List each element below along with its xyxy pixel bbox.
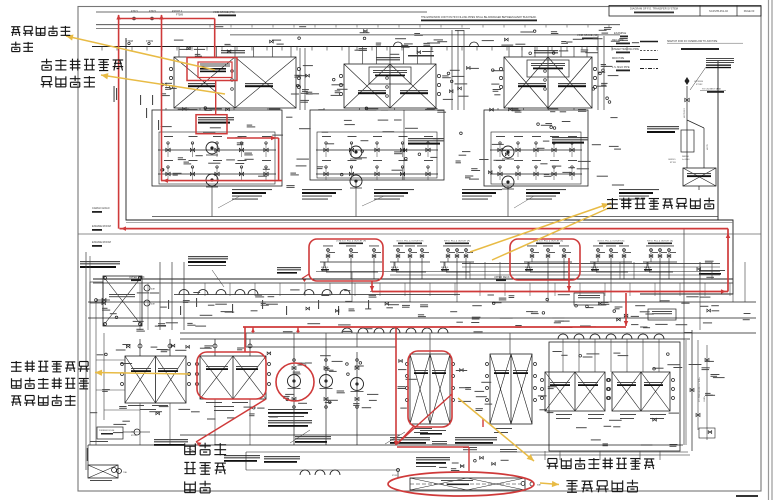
red drop x626: [625, 293, 627, 326]
bottom pipe run y452: [246, 451, 688, 453]
storage tank pair T1 (cargo hold module 1): [174, 57, 296, 108]
transfer pump room box module 2: [310, 110, 444, 180]
red arrow to pump label: [196, 399, 266, 442]
svg-text:FT010: FT010: [131, 435, 138, 437]
filling header line 3: [316, 271, 720, 273]
sample flask M.G.O. FILL & OUTLET (P): [392, 262, 397, 271]
left engine room risers: [159, 262, 161, 330]
svg-text:TO OIL MIST TANK: TO OIL MIST TANK: [702, 88, 722, 91]
tank top vents: [139, 339, 141, 356]
tank T1 labels: [188, 83, 216, 84]
valve cluster module 1: [166, 148, 170, 152]
bottom pipe run y435: [180, 434, 400, 436]
note TO FO DRAIN TK right: [699, 270, 725, 271]
sample flask LS M.G.O. FILL & OUTLET (P): [322, 262, 327, 271]
motor valve 40E lower: [144, 300, 150, 306]
pump spec text below: [268, 409, 312, 410]
red drop into tank1: [214, 19, 216, 58]
left engine room clutter: [116, 350, 126, 351]
pump bay inner box module 1: [159, 132, 275, 184]
MDO tank bottom labels: [128, 405, 144, 406]
label fuel oil overflow tank bottom (Chinese): [566, 480, 577, 482]
svg-text:SAMPLE: SAMPLE: [644, 266, 652, 269]
svg-text:HFO PIPE: HFO PIPE: [612, 39, 624, 42]
red stub arrow x298: [297, 328, 299, 334]
air pipe branch vertical: [703, 128, 705, 168]
svg-text:SC4S7B-451-02: SC4S7B-451-02: [709, 9, 728, 13]
filling header line 1: [462, 263, 720, 265]
red box No.2 LS MGO storage tanks: [408, 351, 452, 427]
red box tank1 inner: [198, 62, 232, 78]
air head symbol: [685, 77, 690, 81]
storage tank pair T3 (cargo hold module 3): [504, 57, 592, 108]
inter-module riser bundle A: [299, 48, 301, 110]
MDO tank fittings: [121, 363, 124, 366]
svg-text:ST. PRESSURE 0.7 MPa: ST. PRESSURE 0.7 MPa: [699, 377, 701, 402]
tank T1 risers to manifold: [178, 47, 180, 58]
module 3 below-tank labels: [547, 108, 558, 109]
small junction box 2: [648, 309, 676, 320]
sketch tank stub: [698, 186, 700, 190]
svg-text:H.F.O. FILL & OUTLET (P): H.F.O. FILL & OUTLET (P): [444, 241, 470, 243]
left engine room stubs: [96, 359, 125, 361]
red ellipse overflow tank: [388, 472, 534, 496]
svg-text:LS M.G.O. FILL & OUTLET (S): LS M.G.O. FILL & OUTLET (S): [533, 241, 563, 243]
leader to air head: [690, 67, 706, 90]
title block: [609, 6, 761, 17]
svg-text:DIAGRAM OF F.O. TRANSFER SYSTE: DIAGRAM OF F.O. TRANSFER SYSTEM: [630, 7, 678, 11]
No.2 tank fitting labels: [398, 386, 406, 387]
svg-text:L=1250: L=1250: [682, 159, 690, 161]
svg-text:SKETCH FOR FO OVERFLOW TK AIR: SKETCH FOR FO OVERFLOW TK AIR PIPE: [667, 40, 718, 43]
svg-text:ENGINE ROOM: ENGINE ROOM: [92, 240, 111, 244]
svg-text:PURIFIER ROOM: PURIFIER ROOM: [99, 430, 115, 432]
svg-text:UPPER DECK: UPPER DECK: [494, 276, 510, 279]
pump piping verticals: [293, 347, 295, 445]
air pipe vertical: [686, 86, 688, 168]
red drop from P box: [371, 281, 373, 292]
svg-text:CARGO HOLD: CARGO HOLD: [92, 206, 110, 210]
note OVERFLOW FROM OVER SE WDO SER TK: [188, 256, 228, 257]
tank to pump room connections module 3: [497, 108, 499, 110]
header y24 ticks: [209, 25, 211, 28]
svg-text:ENGINE ROOM: ENGINE ROOM: [92, 224, 111, 228]
label LS diesel transfer pump (Chinese): [184, 443, 186, 454]
mid band clutter left: [345, 301, 352, 302]
label LS diesel filling port (Chinese): [607, 199, 618, 201]
red drop to tank box x245: [244, 327, 246, 352]
long pipe y216: [152, 216, 718, 218]
pump spec text blocks: [232, 189, 272, 190]
svg-text:PAGE 03: PAGE 03: [744, 9, 755, 13]
rotated riser labels mid band: [168, 300, 169, 309]
sample flask M.G.O. FILL & OUTLET (S): [592, 262, 597, 271]
module 1 below-tank labels: [186, 109, 198, 110]
sludge labels: [90, 480, 112, 481]
tank to pump room connections module 2: [323, 108, 325, 110]
pump room label module 3: [552, 137, 588, 138]
regenerator small box: [90, 282, 103, 303]
overflow tank corner fittings: [104, 277, 107, 280]
engine room loops row D: [558, 334, 568, 339]
filling header line 2: [462, 266, 720, 268]
rotated label on red riser: [114, 86, 115, 102]
mid band clutter right: [500, 318, 513, 319]
transfer pump no.2: [320, 375, 333, 388]
MDO service/settling tank pair: [125, 356, 186, 403]
engine room loops row C: [342, 328, 352, 333]
pump room label module 1: [198, 117, 234, 118]
cargo box right top edge: [717, 60, 719, 220]
bottom pipe run y445: [88, 444, 683, 446]
pump suction header module 2: [316, 149, 438, 151]
right column clutter: [702, 367, 710, 368]
top header pipe y24.7: [96, 24, 620, 26]
filling header line 4: [390, 274, 720, 276]
tank T3 side fitting labels: [493, 89, 501, 90]
red right riser x728: [727, 229, 729, 292]
loops to overflow tank: [300, 470, 310, 475]
text FROM HFO SETTL TK: [455, 437, 497, 438]
tank T3 center label box: [527, 60, 569, 77]
right column bowties: [705, 358, 709, 361]
oil collecting pipe label: [647, 126, 679, 127]
storage tank pair T2 (cargo hold module 2): [344, 64, 436, 108]
inter-module clutter: [297, 159, 309, 160]
tank to pump room connections module 1: [165, 108, 167, 110]
oil collecting pipe box: [681, 130, 694, 152]
text TO FO DRAIN TK: [420, 430, 446, 431]
top header pipe y13: [96, 11, 427, 13]
right column pipes: [685, 340, 687, 445]
note TO OVER SE WDO SER TK: [80, 261, 120, 262]
overflow tank left stubs: [397, 472, 399, 478]
svg-text:FT091: FT091: [392, 475, 397, 477]
tank T3 riser labels: [552, 52, 555, 55]
red stub x483: [482, 419, 484, 427]
pump room clutter module 3: [494, 160, 503, 161]
bottom clutter: [480, 456, 484, 459]
module 2 below-tank labels: [437, 110, 444, 111]
text FROM WDO SETTL TK mid: [224, 455, 260, 456]
svg-text:EXAMPLE: EXAMPLE: [614, 31, 627, 35]
svg-text:VOID SPACE (PS): VOID SPACE (PS): [213, 10, 235, 14]
deck expansion loops row B: [304, 290, 314, 295]
top band label clutter: [225, 44, 231, 45]
LS MGO storage tank pair No.2 (tall): [410, 354, 450, 424]
red highlight top header: [118, 18, 215, 20]
tank inner labels: [109, 294, 135, 295]
module2 upper deck bar: [408, 55, 434, 57]
text FROM WDO SETTL TK: [390, 437, 430, 438]
sample flask LS M.G.O. FILL & OUTLET (S): [526, 262, 531, 271]
tank T2 labels: [358, 90, 386, 91]
tank T2 side fittings: [339, 74, 342, 77]
engine room header y302: [88, 301, 756, 303]
red pump room mid line: [227, 137, 279, 139]
overflow tank right fittings: [521, 482, 525, 486]
red highlight vertical pipe x161: [161, 15, 163, 181]
LS MGO service/settling tank pair: [200, 356, 266, 399]
leader line from note: [212, 270, 224, 287]
cargo hold / engine room divider: [78, 233, 761, 235]
leader slant left: [187, 448, 196, 452]
yellow leader to day tank label: [95, 373, 190, 375]
left drop pipe: [87, 445, 89, 470]
module2 pump room divider: [403, 110, 405, 180]
inter-module riser bundle B: [451, 30, 453, 110]
deck drops engine room: [204, 283, 206, 296]
svg-text:H.F.O. FILL & OUTLET (S): H.F.O. FILL & OUTLET (S): [647, 241, 673, 243]
tank T1 riser labels: [179, 49, 190, 50]
pump P3A: [502, 146, 514, 158]
right mid verticals: [699, 262, 701, 330]
red diagonal box2 to drain: [398, 394, 452, 443]
tank T1 side fitting labels: [163, 83, 167, 86]
mid tanks bottom labels: [414, 428, 432, 429]
svg-text:LS M.G.O. FILL & OUTLET (P): LS M.G.O. FILL & OUTLET (P): [336, 241, 366, 243]
top header pipe y34.9: [230, 34, 620, 36]
manifold drop pipes to deck: [469, 262, 471, 279]
upper header label clutter: [602, 33, 609, 34]
right column small box: [699, 428, 715, 438]
engine room left overflow tank: [103, 276, 142, 326]
svg-text:40E: 40E: [151, 289, 155, 291]
red drop x396: [395, 327, 397, 445]
tank T2 risers to manifold: [348, 47, 350, 65]
svg-text:#121X2.0: #121X2.0: [131, 432, 140, 434]
top header pipe y28.7: [96, 28, 470, 30]
svg-text:SAMPLE: SAMPLE: [525, 266, 533, 269]
svg-text:DN350: DN350: [682, 156, 690, 158]
label LS diesel storage tank bottom (Chinese): [548, 458, 557, 460]
text FROM HFO SETTL TK mid: [264, 456, 300, 457]
engine room header y318: [88, 317, 756, 319]
tank T1 side fittings: [169, 67, 172, 70]
air pipe branch diagonal: [687, 120, 704, 128]
manifold expansion loops: [394, 42, 403, 47]
riser bundle labels: [297, 84, 300, 87]
deck risers x140 x148: [139, 283, 141, 330]
bottom middle diagonal leaders: [290, 430, 310, 443]
yellow leader filling port 2: [492, 207, 611, 260]
engine room header y339: [180, 338, 690, 340]
pump room label module 2: [408, 138, 444, 139]
pump P1A: [206, 142, 218, 154]
small junction box 1: [574, 293, 604, 305]
pump suction stubs to header: [245, 333, 247, 347]
rotated pipe labels module1 left: [140, 95, 141, 105]
red transfer line y291: [372, 291, 728, 293]
text OIL COLLECTING PIPE: [416, 457, 450, 458]
HFO storage tank pair (tall): [490, 354, 532, 424]
deck expansion loops row A: [174, 294, 460, 296]
red pump room bottom line: [161, 180, 282, 182]
svg-text:FT131: FT131: [670, 162, 677, 164]
svg-text:SAMPLE: SAMPLE: [591, 266, 599, 269]
red engine room line y325: [243, 326, 626, 328]
pump header line: [246, 346, 396, 348]
tank area clutter: [161, 349, 170, 350]
red highlight vertical pipe x118: [118, 15, 120, 229]
red drop from S box: [568, 258, 570, 292]
svg-text:VOID SPACE (SB): VOID SPACE (SB): [577, 33, 599, 37]
pump suction header module 1: [158, 149, 276, 151]
red arrowhead to drain note: [302, 274, 309, 279]
inter-module riser bundle C: [597, 36, 599, 110]
engine room header y333: [180, 332, 756, 334]
pump bay inner box module 2: [317, 132, 437, 178]
tank1 inner label block: [200, 64, 230, 65]
right vertical pipe x692: [691, 330, 693, 451]
label LS diesel day/settling tank (Chinese): [11, 362, 22, 364]
right column pipe x707: [706, 345, 708, 440]
right edge clutter: [700, 297, 711, 298]
red circle transfer pump: [276, 363, 314, 401]
pipe into overflow: [246, 469, 400, 471]
left vertical pipes near border: [85, 252, 87, 470]
upper deck line 1: [93, 278, 733, 280]
upper deck line 2: [93, 282, 733, 284]
yellow leader to first LS MGO storage tank label: [101, 75, 225, 94]
right tanks A fittings: [541, 379, 544, 382]
svg-text:1 MPa: 1 MPa: [704, 395, 706, 402]
pump room clutter module 1: [203, 132, 215, 133]
red vertical into ellipse x469: [468, 447, 470, 471]
right tanks bottom labels: [556, 414, 572, 415]
pump suction header module 3: [490, 149, 582, 151]
label first LS light diesel storage tank (Chinese): [46, 59, 48, 64]
purifier room box: [97, 427, 123, 439]
pump P2B: [350, 175, 362, 187]
motor valve 40E upper: [144, 285, 150, 291]
svg-text:SAMPLE: SAMPLE: [321, 266, 329, 269]
transfer pump no.3: [351, 378, 364, 391]
svg-text:50E: 50E: [537, 485, 541, 487]
svg-text:THE EXPANSION JOINT ON HFO FIL: THE EXPANSION JOINT ON HFO FILLING PIPES…: [421, 16, 537, 19]
pump room clutter module 2: [394, 120, 402, 121]
LS MGO tank bottom labels: [206, 402, 222, 403]
pump P1B: [206, 174, 218, 186]
tank T2 side fitting labels: [335, 90, 341, 91]
right tanks clutter: [667, 353, 670, 356]
left engine room verticals: [95, 302, 97, 445]
pump P3B: [502, 176, 514, 188]
tank bottom drops: [139, 403, 141, 445]
LS MGO tank fittings: [196, 363, 199, 366]
sample flask H.F.O. FILL & OUTLET (S): [645, 262, 650, 271]
scan page right edge lines: [768, 0, 770, 500]
red diagonal box bottom to arrow: [397, 426, 414, 444]
HFO tank side fittings: [486, 363, 489, 366]
red box pump room label: [196, 115, 227, 134]
small sludge tank bottom left: [88, 465, 118, 478]
HFO tank fitting labels: [476, 396, 487, 397]
svg-text:STEAM TRACING PIPE: STEAM TRACING PIPE: [612, 48, 639, 51]
storage tanks box right: [549, 342, 680, 451]
red manifold box P side: [309, 239, 383, 281]
pump P2A: [350, 146, 362, 158]
svg-text:#48X3.5: #48X3.5: [668, 159, 676, 161]
red box LS MGO serv/settl tanks: [197, 352, 266, 399]
svg-text:M.G.O. FILL & OUTLET (P): M.G.O. FILL & OUTLET (P): [397, 241, 424, 243]
svg-text:FT132: FT132: [696, 84, 703, 86]
LS MGO storage tank pair right A: [545, 372, 605, 411]
note TO FO DRAIN TK mid: [277, 267, 301, 268]
red stub arrow x253: [252, 328, 254, 334]
text FROM WDO SERV TK left: [154, 439, 188, 440]
svg-text:40E: 40E: [151, 304, 155, 306]
svg-text:#67X5X5: #67X5X5: [694, 81, 704, 83]
red box tank1 label: [187, 58, 237, 81]
LS MGO storage tank pair right B: [612, 372, 670, 411]
red pump room right riser: [278, 138, 280, 181]
tank T2 riser labels: [355, 50, 367, 51]
svg-text:L.S. MGO PIPE: L.S. MGO PIPE: [612, 66, 630, 69]
svg-text:FT089: FT089: [176, 14, 184, 17]
transfer pump room box module 1: [152, 110, 282, 186]
yellow leader to third FO overflow tank label: [66, 36, 215, 70]
spec block leaders: [218, 196, 240, 208]
air pipe valve: [685, 98, 689, 102]
overflow tank bottom: [410, 478, 525, 490]
transfer pump room box module 3: [484, 110, 588, 186]
svg-text:FT071: FT071: [131, 10, 139, 13]
FO overflow tank (sketch): [683, 168, 716, 186]
air head note text: [706, 58, 734, 59]
tank T3 labels: [518, 83, 546, 84]
purifier feed pump: [134, 429, 140, 435]
mid tanks risers: [429, 333, 431, 354]
text FROM WDO SERV TK: [295, 436, 331, 437]
svg-text:UPPER DECK: UPPER DECK: [129, 276, 145, 279]
left small fittings: [102, 298, 106, 301]
red long transfer line y228: [120, 228, 729, 230]
transfer pump no.1 (LS MGO): [288, 375, 301, 388]
tank T3 risers to manifold: [508, 47, 510, 58]
yellow leader to FO overflow label: [540, 483, 559, 485]
labels above overflow tank: [432, 441, 447, 442]
right tanks B fittings: [608, 379, 611, 382]
svg-text:M.G.O. FILL & OUTLET (S): M.G.O. FILL & OUTLET (S): [598, 241, 625, 243]
red manifold box S side: [510, 239, 580, 280]
cargo hold box bottom double line: [126, 221, 733, 223]
manifold center drops to engine header: [351, 272, 353, 302]
pump discharge drops to y216: [211, 186, 213, 217]
figure caption bottom right: [736, 495, 758, 497]
rotated label left pipe: [87, 448, 88, 461]
valve cluster module 3: [498, 148, 502, 152]
svg-text:#27X5: #27X5: [707, 143, 709, 150]
pump bay inner box module 3: [491, 132, 581, 184]
main top manifold y46.5: [92, 46, 640, 48]
red link to overflow ellipse: [397, 446, 469, 448]
svg-text:MDO PIPE: MDO PIPE: [612, 57, 625, 60]
yellow leader filling port 1: [470, 203, 611, 252]
sample flask H.F.O. FILL & OUTLET (P): [442, 262, 447, 271]
svg-text:SAMPLE: SAMPLE: [441, 266, 449, 269]
misc bottom-right verticals: [544, 451, 546, 460]
right tanks risers: [562, 339, 564, 372]
right vertical pipe x684: [683, 228, 685, 445]
text FROM LS MGO SETTL TK: [268, 420, 312, 421]
label third fuel oil overflow tank (Chinese): [11, 26, 20, 28]
svg-text:70E: 70E: [123, 472, 127, 474]
manifold riser ticks: [101, 47, 103, 51]
purifier labels: [90, 441, 108, 442]
tank T3 side fittings: [499, 67, 502, 70]
yellow leader to storage tank label: [458, 398, 534, 461]
